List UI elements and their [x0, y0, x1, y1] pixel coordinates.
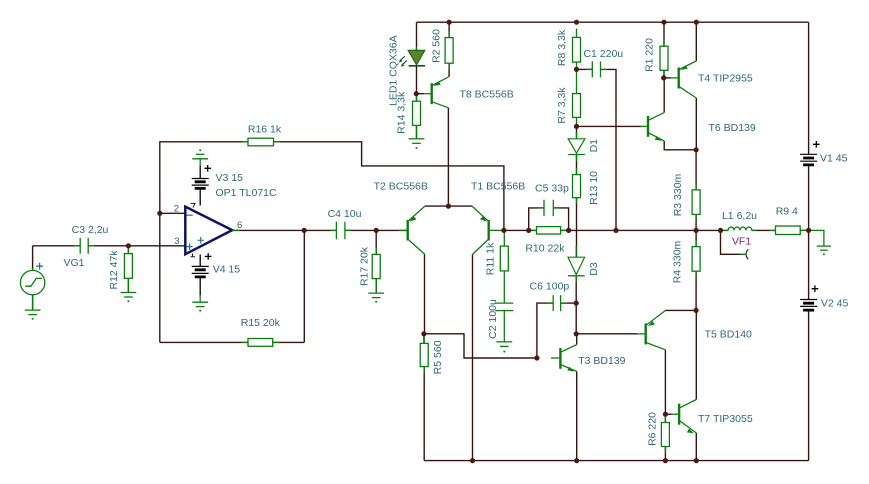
svg-text:C2 100u: C2 100u	[487, 299, 499, 339]
svg-text:D3: D3	[588, 262, 600, 276]
svg-text:R4 330m: R4 330m	[672, 240, 684, 283]
wire C6 right lead	[561, 302, 577, 304]
wire node R8/R7 to D1	[576, 126, 578, 138]
node C5/R10 right	[566, 228, 571, 233]
resistor R17	[372, 248, 380, 285]
wire VG1 to C3	[33, 245, 81, 247]
wire L1 to R9	[752, 229, 776, 231]
resistor R13	[573, 168, 581, 204]
capacitor C3	[74, 238, 95, 254]
wire VG1 to ground	[32, 295, 34, 310]
svg-text:2: 2	[174, 204, 179, 215]
capacitor C4	[330, 222, 351, 239]
ground below V4	[192, 295, 208, 312]
wire R4 leads	[695, 230, 697, 310]
resistor R4	[692, 240, 700, 278]
wire T7 collector up	[695, 310, 697, 399]
svg-text:R9 4: R9 4	[776, 206, 798, 218]
resistor R3	[692, 183, 700, 221]
wire T6 base	[577, 125, 642, 127]
battery V1	[800, 154, 817, 165]
wire V2 bottom to negative rail	[808, 310, 810, 461]
wire R3 leads	[695, 150, 697, 231]
node T3 collector/T5 base	[574, 331, 579, 336]
op-amp OP1 TL071C	[185, 203, 240, 256]
label VG1 plus sign	[36, 263, 43, 270]
resistor R9	[769, 226, 807, 235]
wire R5 bottom to negative rail	[423, 367, 425, 461]
svg-text:OP1 TL071C: OP1 TL071C	[216, 187, 278, 199]
wire LED cathode to T8 base node	[416, 67, 418, 94]
transistor T1 BC556B (PNP mirrored)	[472, 206, 504, 254]
svg-text:T2 BC556B: T2 BC556B	[374, 181, 428, 193]
wire T4 emitter up to top rail	[695, 22, 697, 61]
resistor R2	[445, 31, 453, 70]
wire output rail R10 to L1	[561, 229, 729, 231]
wire input vertical from VG1 top	[32, 246, 34, 271]
wire T5 emitter to R4 node	[665, 309, 696, 311]
svg-text:VG1: VG1	[63, 257, 84, 269]
svg-text:R11 1k: R11 1k	[484, 242, 496, 275]
node input/R12	[126, 243, 131, 248]
wire C3 to op-amp pin 3	[88, 245, 185, 247]
resistor R14	[413, 95, 421, 132]
wire R13 to D3	[576, 198, 578, 258]
svg-text:V1 45: V1 45	[820, 153, 848, 165]
node R7/D1/T6 base	[574, 124, 579, 129]
svg-text:T8 BC556B: T8 BC556B	[460, 89, 514, 101]
wire T6 collector up to T4 base node	[663, 78, 665, 113]
svg-text:V4 15: V4 15	[213, 264, 241, 276]
wire R6 leads	[664, 414, 666, 460]
wire VF1 probe tap	[721, 230, 741, 254]
capacitor C2	[495, 278, 513, 318]
svg-text:T4 TIP2955: T4 TIP2955	[698, 73, 753, 85]
ground above V3 (flipped)	[192, 149, 208, 166]
node top rail R1	[661, 20, 666, 25]
svg-text:6: 6	[237, 220, 242, 231]
svg-text:C4 10u: C4 10u	[328, 208, 362, 220]
wire R14 leads	[416, 94, 418, 139]
wire T1 collector down to negative rail	[472, 254, 474, 460]
wire T7 base	[665, 413, 671, 415]
svg-text:R17 20k: R17 20k	[359, 246, 371, 286]
svg-text:R5 560: R5 560	[432, 340, 444, 374]
node R1/T6 collector/T4 base	[661, 75, 666, 80]
node C5/R10 left	[526, 228, 531, 233]
wire R2 leads	[448, 22, 450, 77]
wire top positive rail	[417, 21, 809, 23]
svg-text:T1 BC556B: T1 BC556B	[471, 181, 525, 193]
node LED/R14/T8 base	[414, 91, 419, 96]
inductor L1	[721, 227, 758, 230]
wire V4 lower lead	[199, 277, 201, 295]
wire T2/T1 emitter bar	[425, 205, 472, 207]
ground below R14	[409, 132, 425, 149]
plus sign V3	[204, 165, 211, 172]
svg-text:V2 45: V2 45	[821, 298, 849, 310]
wire op-amp output to C4	[232, 229, 336, 231]
node output/R15 tap	[302, 228, 307, 233]
voltage probe VF1	[740, 249, 748, 259]
svg-text:D1: D1	[588, 139, 600, 153]
wire C5 right lead	[553, 208, 568, 231]
transistor T8 BC556B (PNP)	[423, 77, 449, 108]
svg-text:R7 3,3k: R7 3,3k	[556, 87, 568, 124]
transistor T4 TIP2955 (PNP)	[670, 61, 696, 98]
svg-text:VF1: VF1	[732, 236, 751, 248]
svg-text:R1 220: R1 220	[644, 38, 656, 72]
resistor R1	[660, 40, 668, 78]
node C4/R17/T2 base	[374, 228, 379, 233]
node bottom rail R6	[663, 458, 668, 463]
wire D3 to C6 node	[575, 276, 577, 303]
svg-text:3: 3	[174, 236, 179, 247]
transistor T6 BD139 (NPN)	[640, 113, 664, 141]
generator VG1	[20, 268, 44, 300]
resistor R5	[420, 336, 428, 373]
node top rail R2	[447, 20, 452, 25]
node top rail T4 emitter	[694, 20, 699, 25]
node L1/VF1	[718, 228, 723, 233]
wire C4 to T2 base	[345, 229, 407, 231]
wire T8 base	[416, 93, 424, 95]
plus sign V1	[813, 141, 820, 148]
wire mid node to V2 top	[808, 230, 810, 299]
wire V1 top from rail	[808, 22, 810, 154]
transistor T2 BC556B (PNP)	[399, 206, 425, 254]
node D3/C6	[574, 301, 579, 306]
resistor R6	[661, 416, 669, 453]
wire T6 emitter down and right	[664, 141, 696, 150]
wire D1 to R13	[576, 155, 578, 175]
node bottom rail T7 emitter	[694, 458, 699, 463]
transistor T7 TIP3055 (NPN)	[672, 400, 697, 434]
svg-text:R13 10: R13 10	[588, 171, 600, 205]
node op-amp pin2/feedback	[157, 211, 162, 216]
plus sign V4	[205, 253, 212, 260]
node T1 base	[501, 228, 506, 233]
wire R9 to supply mid node	[800, 229, 808, 231]
ground right of R9	[809, 230, 832, 255]
battery V3	[192, 179, 209, 189]
ground below R17	[368, 285, 384, 303]
wire R12 leads	[127, 246, 129, 293]
ground below VG1	[25, 300, 41, 320]
node T4 collector/T6 emitter/R3	[694, 147, 699, 152]
node R8/R7/C1	[574, 67, 579, 72]
wire R15 right with tap up to output node	[273, 230, 305, 342]
wire R1 leads	[663, 22, 665, 78]
resistor R12	[124, 247, 132, 285]
node R9/V1/V2/ground	[806, 228, 811, 233]
transistor T5 BD140 (PNP)	[637, 311, 665, 350]
node bottom rail T1 collector	[470, 458, 475, 463]
wire R17 leads	[375, 230, 377, 293]
svg-text:R8 3,3k: R8 3,3k	[556, 29, 568, 66]
wire T4 collector down	[695, 98, 697, 150]
diode D1	[568, 132, 585, 161]
diode D3	[568, 246, 585, 283]
node T2/T1 emitters	[446, 204, 451, 209]
resistor R16	[242, 138, 281, 146]
node R3/R4/output	[694, 228, 699, 233]
wire C1 right lead down to output rail (bootstrap)	[601, 69, 617, 230]
svg-text:C3 2,2u: C3 2,2u	[72, 224, 109, 236]
wire R5 top lead	[423, 334, 425, 344]
node bottom rail T3 emitter	[574, 458, 579, 463]
wire R16 right to T1 base node	[274, 142, 504, 231]
wire T2 collector down	[424, 254, 426, 333]
node top rail R8	[574, 20, 579, 25]
wire op-amp pin 2	[160, 212, 186, 214]
wire T3 emitter down to negative rail	[576, 371, 578, 460]
wire C5 left lead	[529, 208, 544, 231]
svg-text:R10 22k: R10 22k	[525, 243, 565, 255]
ground below R12	[121, 285, 137, 302]
svg-text:C5 33p: C5 33p	[535, 183, 569, 195]
node T2 collector/R5	[421, 331, 426, 336]
svg-text:C6 100p: C6 100p	[530, 281, 570, 293]
wire T4 base	[664, 77, 671, 79]
node T5 collector/T7 base/R6	[663, 412, 668, 417]
battery V4	[192, 266, 209, 277]
resistor R11	[500, 230, 508, 277]
svg-text:R15 20k: R15 20k	[241, 317, 281, 329]
svg-text:R2 560: R2 560	[431, 29, 443, 63]
wire left feedback rail	[160, 142, 248, 343]
wire top rail corner down to LED	[416, 22, 418, 50]
wire T5 collector down to T7 base node	[664, 350, 666, 414]
wire C6 left lead down to T3 base node	[537, 303, 553, 358]
wire C6 node down to T5 base node	[575, 303, 577, 334]
svg-text:R16 1k: R16 1k	[248, 123, 282, 135]
resistor R7	[573, 69, 581, 126]
svg-text:T3 BD139: T3 BD139	[578, 355, 625, 367]
resistor R8	[573, 29, 581, 70]
capacitor C5	[538, 200, 560, 216]
node bootstrap C1/output	[613, 228, 618, 233]
capacitor C1	[586, 61, 607, 77]
wire output rail left of R10	[504, 229, 537, 231]
wire T8 collector down to emitter node	[447, 108, 449, 206]
wire T3 collector up	[576, 334, 578, 345]
wire C1 left lead	[577, 68, 593, 70]
wire negative bottom rail	[424, 460, 808, 462]
resistor R15	[242, 339, 280, 347]
svg-text:T6 BD139: T6 BD139	[709, 122, 756, 134]
node T3 base/C6	[534, 355, 539, 360]
wire T5 base from T3 collector node	[576, 333, 638, 335]
wire V3 lower lead to op-amp top	[199, 188, 201, 205]
svg-text:L1 6,2u: L1 6,2u	[722, 210, 757, 222]
wire T7 emitter down to negative rail	[695, 433, 697, 461]
wire step from R5 node to T3 base node	[424, 334, 537, 358]
svg-text:R6 220: R6 220	[646, 412, 658, 446]
svg-text:T7 TIP3055: T7 TIP3055	[698, 413, 753, 425]
svg-text:T5 BD140: T5 BD140	[705, 329, 752, 341]
transistor T3 BD139 (NPN)	[551, 345, 577, 372]
ground below C2	[496, 317, 512, 353]
svg-text:R12 47k: R12 47k	[108, 250, 120, 290]
capacitor C6	[547, 295, 567, 311]
wire V3 upper lead	[199, 166, 201, 179]
battery V2	[800, 300, 817, 311]
wire R15 left	[160, 341, 248, 343]
wire V4 upper lead from op-amp bottom	[199, 255, 201, 267]
svg-text:C1 220u: C1 220u	[583, 48, 623, 60]
wire V1 bottom to mid node	[808, 165, 810, 231]
node R4/T5 emitter/T7 collector	[694, 308, 699, 313]
plus sign V2	[812, 285, 819, 292]
svg-text:R3 330m: R3 330m	[672, 173, 684, 216]
LED1	[399, 47, 425, 67]
svg-text:R14 3,3k: R14 3,3k	[395, 91, 407, 134]
svg-text:V3 15: V3 15	[216, 172, 244, 184]
resistor R10	[530, 227, 568, 234]
